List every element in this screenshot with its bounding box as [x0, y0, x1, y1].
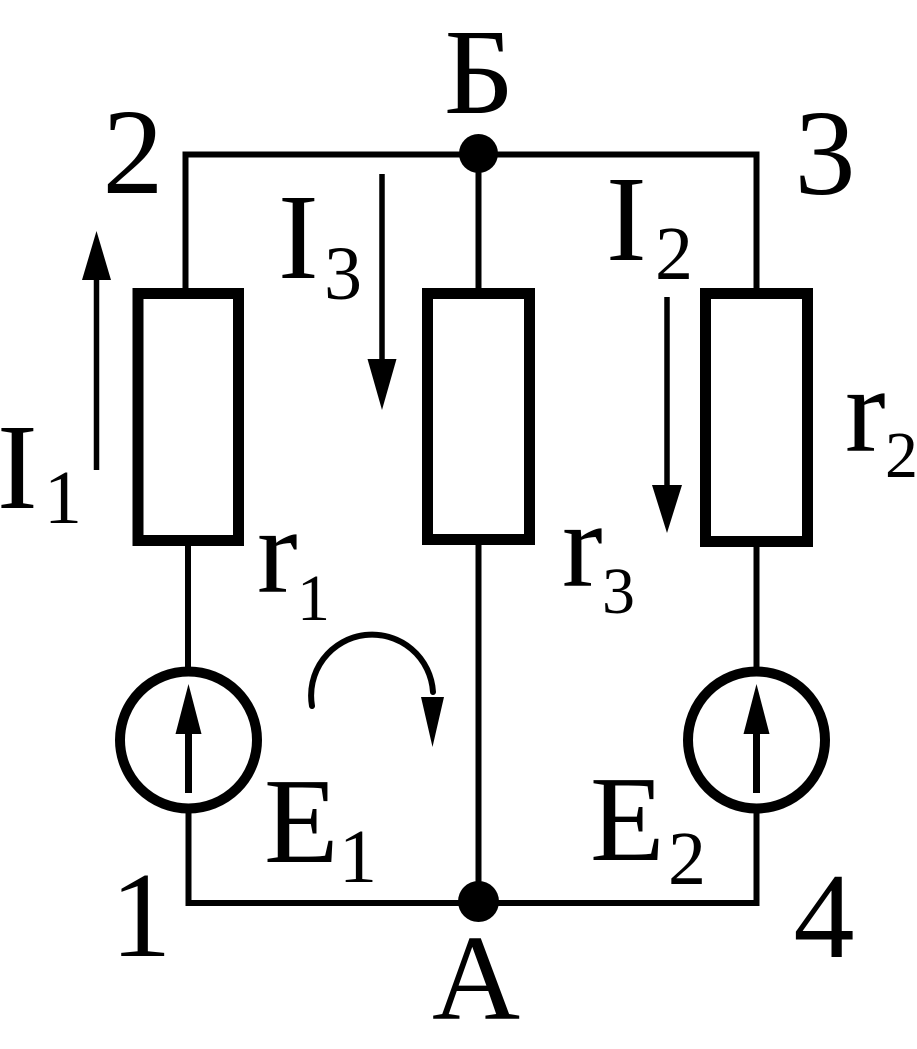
svg-text:E: E — [590, 752, 665, 887]
wire top horizontal node2 to node3 — [183, 152, 760, 158]
svg-text:r: r — [845, 343, 886, 478]
wire node3 corner down to r2 — [754, 152, 760, 293]
svg-text:3: 3 — [602, 555, 635, 628]
svg-text:I: I — [278, 170, 319, 305]
svg-text:I: I — [0, 400, 38, 535]
svg-text:2: 2 — [885, 419, 917, 492]
wire E2 to node 4 — [754, 806, 760, 906]
node B junction dot — [459, 134, 498, 173]
EMF source E1 circle — [120, 672, 257, 809]
wire r1 to E1 — [185, 540, 191, 675]
wire E1 to node 1 — [186, 806, 192, 906]
node A junction dot — [458, 881, 499, 922]
svg-text:3: 3 — [795, 86, 856, 221]
svg-text:2: 2 — [668, 817, 706, 901]
E1 internal arrow up — [185, 726, 192, 793]
svg-text:4: 4 — [794, 849, 855, 984]
current arrow I2 down — [664, 297, 670, 490]
svg-text:1: 1 — [297, 562, 330, 635]
loop direction curved arrow — [311, 635, 433, 706]
wire bottom horizontal node1 to node4 — [186, 900, 760, 906]
svg-text:r: r — [562, 478, 603, 613]
EMF source E2 circle — [688, 672, 825, 809]
E2 internal arrow up — [753, 726, 760, 793]
wire r2 to E2 — [754, 541, 760, 675]
current arrow I1 up — [94, 276, 100, 470]
svg-text:r: r — [257, 484, 298, 619]
wire r3 to node A — [476, 541, 482, 903]
svg-text:1: 1 — [44, 456, 82, 540]
svg-text:2: 2 — [655, 212, 693, 296]
svg-text:Б: Б — [444, 5, 514, 140]
wire node2 corner down to r1 — [183, 152, 189, 293]
svg-text:E: E — [264, 754, 339, 889]
svg-text:2: 2 — [103, 85, 164, 220]
wire node B down to r3 — [476, 153, 482, 292]
svg-text:I: I — [606, 152, 647, 287]
svg-text:3: 3 — [324, 232, 362, 316]
resistor r2 — [706, 294, 808, 542]
current arrow I3 down — [379, 174, 385, 365]
svg-text:1: 1 — [339, 815, 377, 899]
svg-text:А: А — [432, 911, 520, 1046]
resistor r1 — [138, 294, 239, 541]
svg-text:1: 1 — [111, 848, 172, 983]
resistor r3 — [428, 294, 530, 540]
